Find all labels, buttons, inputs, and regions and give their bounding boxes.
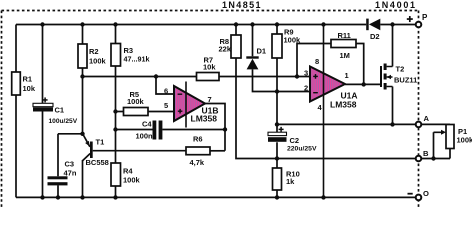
wire: R5 right lead to U1B pin 5	[148, 111, 174, 113]
wire: T1 collector to ground rail	[82, 160, 84, 197]
wire: mid rail to U1B pin 6	[156, 77, 174, 95]
resistor R11	[331, 31, 356, 60]
wire: P1 bottom to node B	[449, 149, 451, 159]
resistor R5	[124, 90, 149, 116]
svg-text:D2: D2	[370, 32, 380, 41]
resistor R6	[186, 135, 210, 168]
svg-text:1k: 1k	[286, 177, 295, 186]
capacitor C3	[48, 160, 77, 186]
wire: R9 top branch	[276, 25, 278, 35]
capacitor C1	[33, 97, 78, 125]
svg-text:C4: C4	[142, 120, 152, 129]
U1B power stub line	[185, 82, 187, 128]
wire: R10 bottom to ground rail	[276, 190, 278, 197]
svg-text:R1: R1	[23, 75, 33, 84]
resistor R1	[12, 72, 36, 95]
wire: R3 top branch	[115, 25, 117, 44]
wire: C2 bottom / node B to R10	[276, 159, 278, 169]
svg-text:BC558: BC558	[86, 158, 109, 167]
svg-text:100k: 100k	[123, 176, 141, 185]
wire: C3 branch vertical	[57, 134, 59, 198]
svg-text:100n: 100n	[136, 132, 154, 141]
wire: R2 top branch	[82, 25, 84, 45]
svg-text:47...91k: 47...91k	[124, 55, 150, 64]
wire: T2 drain to +P node	[392, 25, 394, 67]
svg-text:R11: R11	[338, 31, 351, 40]
svg-text:47n: 47n	[64, 169, 77, 178]
transistor T2	[381, 64, 417, 90]
op-amp U1A	[310, 67, 358, 110]
svg-text:B: B	[423, 149, 429, 158]
svg-text:LM358: LM358	[330, 99, 357, 109]
svg-text:5: 5	[164, 101, 168, 110]
wire: U1B output pin 7	[205, 104, 225, 151]
svg-text:P: P	[422, 13, 428, 22]
wire: U1A power rail pin8/pin4 vertical	[323, 25, 325, 198]
diode D2	[366, 19, 380, 41]
resistor R9	[272, 28, 301, 59]
wire: R8 top branch	[235, 25, 237, 36]
potentiometer P1	[446, 125, 472, 149]
wire: R9 bottom down through pin2 node to C2	[276, 58, 278, 124]
capacitor C4	[136, 120, 163, 141]
resistor R8	[219, 35, 242, 58]
svg-text:10k: 10k	[203, 63, 216, 72]
svg-text:BUZ11: BUZ11	[394, 76, 417, 85]
wire: mid rail (R2 node to R7)	[83, 76, 197, 78]
svg-text:T2: T2	[396, 65, 405, 74]
svg-text:10k: 10k	[23, 84, 36, 93]
wire: R8 bottom down and right to node B	[236, 58, 450, 159]
wire: left branch top (rail to R1)	[15, 25, 17, 73]
svg-text:1M: 1M	[340, 51, 350, 60]
wire: R11 right lead to output node	[356, 44, 364, 85]
svg-text:C2: C2	[290, 136, 300, 145]
wire: C3 top to T1 emitter node	[58, 133, 83, 135]
svg-text:D1: D1	[257, 47, 267, 56]
svg-text:100u/25V: 100u/25V	[49, 118, 78, 125]
svg-text:8: 8	[315, 57, 319, 66]
svg-text:1N4001: 1N4001	[375, 0, 417, 10]
svg-text:6: 6	[164, 87, 168, 96]
wire: R7 right to U1A pin 3	[219, 76, 310, 78]
svg-text:1: 1	[345, 71, 349, 80]
dashed module boundary	[2, 11, 419, 210]
svg-text:R4: R4	[123, 167, 133, 176]
diode D1	[246, 47, 266, 70]
svg-text:4,7k: 4,7k	[190, 158, 205, 167]
svg-text:C1: C1	[55, 106, 65, 115]
wire: +V top rail	[16, 24, 366, 26]
resistor R2	[78, 44, 107, 68]
wire: U1A output to T2 gate	[345, 83, 381, 85]
wire: P1 wiper to node B	[434, 130, 447, 159]
svg-text:2: 2	[304, 84, 308, 93]
wire: R1 to ground rail	[15, 95, 17, 197]
svg-text:R2: R2	[89, 47, 99, 56]
resistor R4	[111, 163, 141, 186]
wire: T2 source to node A	[392, 87, 394, 125]
terminal P (+)	[407, 13, 428, 27]
wire: R4 bottom to ground rail	[115, 186, 117, 197]
op-amp U1B	[174, 86, 219, 123]
wire: mid rail node down to T1 emitter	[82, 77, 84, 134]
svg-text:100k: 100k	[457, 136, 472, 145]
wire: R2 bottom to mid rail	[82, 68, 84, 77]
wire: R3 bottom down to R4 (crosses mid rail)	[115, 66, 117, 163]
wire: C4 right lead to feedback node	[162, 129, 225, 131]
svg-text:T1: T1	[96, 138, 105, 147]
svg-text:22k: 22k	[219, 45, 232, 54]
wire: D2 anode to terminal P	[380, 24, 418, 26]
svg-text:A: A	[424, 114, 430, 123]
terminal B	[416, 149, 429, 161]
resistor R7	[197, 56, 220, 81]
svg-text:100k: 100k	[127, 97, 145, 106]
svg-text:O: O	[423, 189, 429, 198]
wire: C4 left lead	[116, 129, 153, 131]
capacitor C2	[268, 124, 317, 158]
wire: R6 right lead	[210, 150, 225, 152]
wire: R6 left lead to T1 base	[93, 150, 186, 152]
terminal O (0V)	[408, 189, 430, 200]
svg-text:LM358: LM358	[191, 113, 218, 123]
resistor R10	[273, 168, 300, 190]
wire: ground bottom rail	[16, 196, 419, 198]
svg-text:220u/25V: 220u/25V	[287, 146, 317, 153]
svg-text:C3: C3	[65, 160, 75, 169]
wire: C1 branch	[42, 25, 44, 198]
svg-text:3: 3	[304, 69, 308, 78]
transistor T1	[83, 134, 109, 168]
svg-text:R6: R6	[193, 135, 203, 144]
wire: R5 left lead	[116, 111, 124, 113]
svg-text:1N4851: 1N4851	[222, 0, 262, 10]
wire: D1 cathode to top rail	[252, 25, 254, 57]
wire: node A horizontal	[277, 123, 450, 125]
wire: D1 anode down to U1A pin 2 wire	[253, 69, 311, 91]
svg-text:100k: 100k	[89, 57, 107, 66]
resistor R3	[111, 44, 149, 67]
wire: R11 left lead to pin3 node	[297, 44, 331, 77]
terminal A	[416, 114, 430, 127]
